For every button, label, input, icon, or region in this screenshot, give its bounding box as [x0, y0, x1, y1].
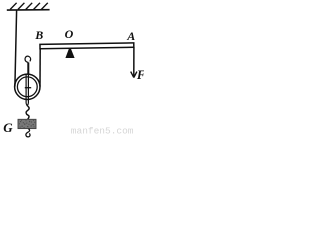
force arrow F at A: [131, 47, 137, 77]
lever beam B-A: [40, 43, 134, 49]
ceiling line: [7, 9, 50, 11]
axle bracket bar: [26, 74, 28, 107]
hook below weight: [26, 129, 30, 137]
svg-text:O: O: [65, 27, 74, 41]
svg-text:B: B: [34, 28, 43, 42]
svg-text:manfen5.com: manfen5.com: [71, 126, 134, 137]
pulley wheel outer rim: [15, 74, 40, 99]
svg-text:F: F: [136, 68, 144, 82]
fulcrum triangle under O: [65, 48, 74, 58]
hook on top of pulley bracket: [25, 56, 31, 74]
axle pin: [25, 87, 31, 89]
weight G block: [18, 119, 36, 128]
link squiggle between bracket and weight: [26, 106, 29, 119]
ceiling hatching: [10, 3, 48, 10]
svg-text:G: G: [3, 120, 13, 135]
svg-text:A: A: [126, 29, 135, 43]
wire: left rope from ceiling to pulley: [15, 11, 17, 87]
pulley wheel inner groove: [17, 77, 37, 97]
wire: right rope from beam end B down to pulley: [39, 48, 41, 87]
